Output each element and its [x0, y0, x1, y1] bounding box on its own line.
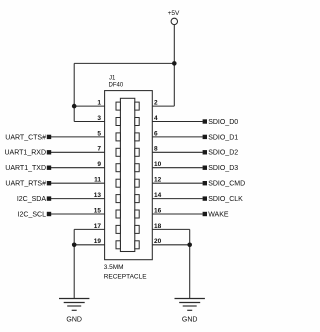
- J1 pin 17 / pin 18 contacts: [116, 225, 120, 233]
- node SDIO_D2 tap square: [203, 150, 207, 154]
- J1 pin 19 / pin 20 contacts: [116, 241, 120, 249]
- svg-text:2: 2: [154, 100, 158, 107]
- wire pin11 UART_RTS#: [51, 182, 105, 184]
- node UART_RTS# tap square: [47, 181, 51, 185]
- J1 pin 15 / pin 16 contacts: [116, 210, 120, 218]
- node SDIO_D0 tap square: [203, 119, 207, 123]
- connector J1 center bar: [120, 98, 134, 251]
- wire pin13 I2C_SDA: [51, 198, 105, 200]
- wire pin1: [74, 105, 104, 107]
- svg-text:WAKE: WAKE: [208, 211, 229, 218]
- svg-text:12: 12: [154, 177, 162, 184]
- wire right gnd bus: [189, 229, 191, 298]
- wire pin16 WAKE: [152, 213, 202, 215]
- svg-text:13: 13: [94, 192, 102, 199]
- wire pin12 SDIO_CMD: [152, 182, 202, 184]
- svg-text:10: 10: [154, 161, 162, 168]
- svg-text:SDIO_D1: SDIO_D1: [208, 134, 238, 141]
- svg-text:DF40: DF40: [109, 83, 124, 89]
- svg-text:18: 18: [154, 223, 162, 230]
- node SDIO_D1 tap square: [203, 135, 207, 139]
- connector J1 outer body: [105, 91, 153, 260]
- node UART_CTS# tap square: [47, 135, 51, 139]
- J1 pin 5 / pin 6 contacts: [116, 133, 120, 141]
- svg-text:3: 3: [97, 115, 101, 122]
- node SDIO_CMD tap square: [203, 181, 207, 185]
- svg-text:7: 7: [97, 146, 101, 153]
- svg-text:I2C_SCL: I2C_SCL: [18, 211, 47, 218]
- svg-text:SDIO_CMD: SDIO_CMD: [208, 181, 245, 188]
- svg-text:8: 8: [154, 146, 158, 153]
- wire pin10 SDIO_D3: [152, 167, 202, 169]
- svg-text:3.5MM: 3.5MM: [104, 264, 124, 271]
- junction dots: [72, 61, 192, 247]
- wire pin4 SDIO_D0: [152, 121, 202, 123]
- svg-text:UART1_TXD: UART1_TXD: [5, 165, 46, 172]
- wire pin3: [74, 121, 104, 123]
- wire pin14 SDIO_CLK: [152, 198, 202, 200]
- node UART1_RXD tap square: [47, 150, 51, 154]
- svg-text:9: 9: [97, 161, 101, 168]
- svg-text:+5V: +5V: [168, 10, 180, 17]
- J1 pin 11 / pin 12 contacts: [116, 179, 120, 187]
- J1 pin 7 / pin 8 contacts: [116, 148, 120, 156]
- svg-text:I2C_SDA: I2C_SDA: [17, 196, 47, 203]
- svg-text:RECEPTACLE: RECEPTACLE: [104, 273, 148, 280]
- wire pin18: [152, 228, 189, 230]
- connector J1 pin contacts: [116, 102, 139, 249]
- wire top bus: [74, 62, 174, 64]
- node I2C_SDA tap square: [47, 196, 51, 200]
- node pin1 junction: [72, 104, 77, 109]
- svg-text:SDIO_CLK: SDIO_CLK: [208, 196, 243, 203]
- svg-text:15: 15: [94, 207, 102, 214]
- node pin20 junction: [187, 243, 192, 248]
- wire pin20: [152, 244, 189, 246]
- node +5V/pin2 junction: [172, 61, 177, 66]
- node I2C_SCL tap square: [47, 212, 51, 216]
- wire pin6 SDIO_D1: [152, 136, 202, 138]
- svg-text:UART1_RXD: UART1_RXD: [5, 150, 47, 157]
- svg-text:4: 4: [154, 115, 158, 122]
- ground right: [175, 299, 205, 311]
- svg-text:11: 11: [94, 177, 101, 184]
- wire pin8 SDIO_D2: [152, 151, 202, 153]
- node UART1_TXD tap square: [47, 166, 51, 170]
- svg-text:20: 20: [154, 238, 162, 245]
- wire pin19: [74, 244, 104, 246]
- +5V symbol: [171, 18, 177, 63]
- svg-text:J1: J1: [109, 75, 116, 81]
- svg-text:SDIO_D3: SDIO_D3: [208, 165, 238, 172]
- wire pin15 I2C_SCL: [51, 213, 105, 215]
- J1 pin 9 / pin 10 contacts: [116, 164, 120, 172]
- svg-text:GND: GND: [182, 317, 198, 324]
- svg-text:17: 17: [94, 223, 102, 230]
- wire pin17: [74, 228, 104, 230]
- svg-text:SDIO_D0: SDIO_D0: [208, 119, 238, 126]
- svg-text:19: 19: [94, 238, 102, 245]
- right net labels: [208, 119, 245, 218]
- svg-text:UART_RTS#: UART_RTS#: [5, 181, 46, 188]
- pin numbers right: [154, 100, 162, 246]
- wire left bus: [73, 63, 75, 121]
- svg-text:GND: GND: [66, 317, 82, 324]
- J1 pin 1 / pin 2 contacts: [116, 102, 120, 110]
- node WAKE tap square: [203, 212, 207, 216]
- pin numbers left: [94, 100, 102, 246]
- svg-text:5: 5: [97, 130, 101, 137]
- svg-text:16: 16: [154, 207, 162, 214]
- svg-text:6: 6: [154, 130, 158, 137]
- J1 pin 3 / pin 4 contacts: [116, 118, 120, 126]
- wire pin7 UART1_RXD: [51, 151, 105, 153]
- svg-text:SDIO_D2: SDIO_D2: [208, 150, 238, 157]
- J1 pin 13 / pin 14 contacts: [116, 195, 120, 203]
- svg-text:14: 14: [154, 192, 162, 199]
- wire pin5 UART_CTS#: [51, 136, 105, 138]
- wire pin9 UART1_TXD: [51, 167, 105, 169]
- node SDIO_CLK tap square: [203, 196, 207, 200]
- node pin19 junction: [72, 243, 77, 248]
- svg-text:UART_CTS#: UART_CTS#: [5, 134, 46, 141]
- svg-text:1: 1: [97, 100, 101, 107]
- wire left gnd bus: [73, 229, 75, 298]
- node SDIO_D3 tap square: [203, 166, 207, 170]
- ground left: [59, 299, 89, 311]
- wire pin2: [173, 63, 175, 106]
- left net labels: [5, 134, 47, 218]
